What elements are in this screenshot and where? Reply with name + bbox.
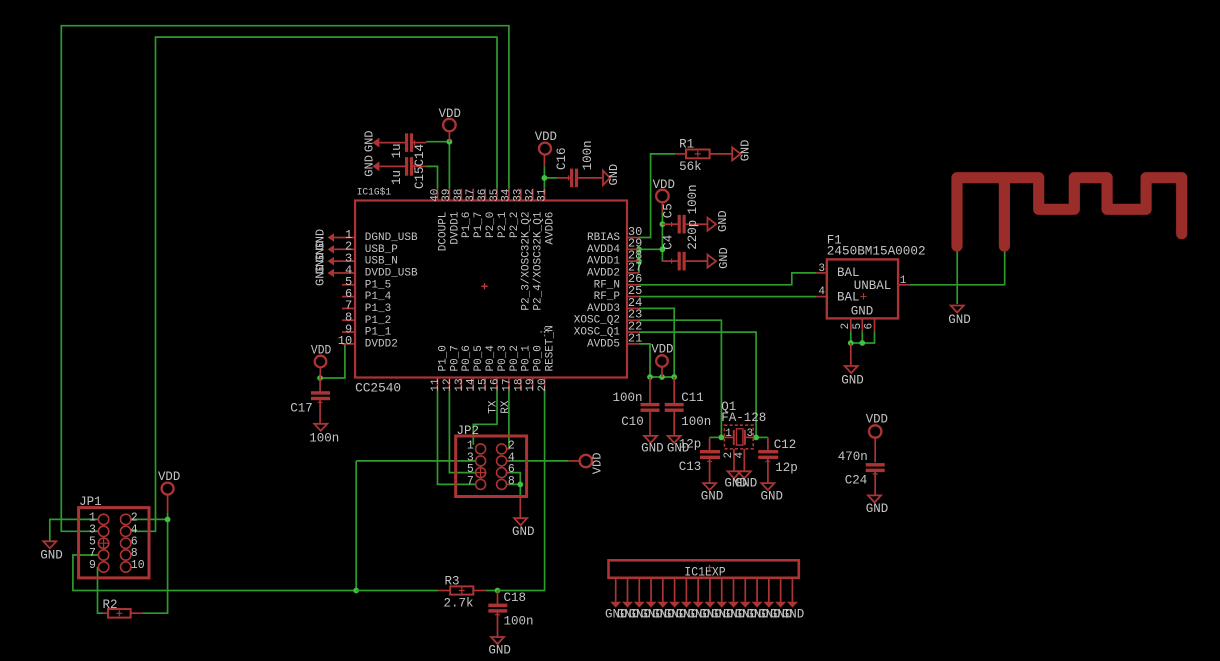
ground C14 (372, 138, 379, 148)
wire VDD to C14 and pin39 (426, 142, 449, 189)
svg-text:P2_0: P2_0 (485, 212, 497, 238)
junction C10 VDD (647, 374, 653, 380)
junction VDD stub (659, 374, 665, 380)
svg-text:17: 17 (501, 378, 513, 391)
svg-text:GND: GND (363, 155, 377, 177)
svg-text:AVDD3: AVDD3 (587, 303, 620, 315)
supply VDD JP2 pin4 (569, 460, 580, 462)
svg-text:GND: GND (739, 140, 753, 162)
svg-text:12p: 12p (775, 461, 798, 475)
capacitor C16 (557, 177, 570, 179)
svg-text:FA-128: FA-128 (721, 411, 766, 425)
wire R1 to pin30 RBIAS (639, 154, 675, 238)
connector IC1EXP (609, 560, 799, 578)
svg-text:14: 14 (466, 378, 478, 392)
svg-text:JP2: JP2 (457, 424, 480, 438)
ground C18 (491, 637, 504, 644)
IC1 pin 34 P2_2 (508, 189, 510, 201)
wire crystal pin1 to C13 (710, 436, 722, 438)
JP1 pin 9 (98, 562, 108, 572)
IC1EXP pin 7 to GND (685, 578, 687, 602)
svg-text:P2_3/XOSC32K_Q2: P2_3/XOSC32K_Q2 (521, 212, 533, 311)
capacitor C4 (678, 252, 681, 271)
JP2 pin 7 (476, 479, 486, 489)
ground JP1 pin1 (43, 541, 56, 548)
IC1 pin 35 P2_1 (496, 189, 498, 201)
junction R3/C18/RESET_N (495, 588, 501, 594)
svg-text:R1: R1 (679, 138, 694, 152)
svg-text:21: 21 (628, 331, 642, 345)
svg-text:C5: C5 (662, 203, 676, 218)
ground R1 (732, 147, 741, 160)
antenna E1 meander (957, 178, 1182, 246)
ground IC1 pin 2 (334, 248, 342, 250)
svg-text:GND: GND (717, 247, 731, 269)
IC1 pin 40 DCOUPL (437, 189, 439, 201)
wire R3 to C18/RESET junction (356, 590, 438, 592)
wire JP1 pin9 to R2 (98, 567, 104, 613)
junction R3 rail (353, 588, 359, 594)
wire JP1 pin1 to GND (50, 519, 99, 540)
IC1 pin 37 P1_7 (472, 189, 474, 201)
ground F1 (850, 343, 852, 365)
IC1 pin 6 P1_4 (342, 296, 355, 298)
Q1 pin4 lead to GND (743, 449, 745, 471)
capacitor C15 (380, 165, 405, 167)
wire JP1 pin7 to R3 rail (73, 555, 356, 591)
svg-text:3: 3 (747, 428, 754, 440)
svg-text:XOSC_Q2: XOSC_Q2 (574, 315, 620, 327)
svg-text:P0_4: P0_4 (485, 345, 497, 372)
IC1EXP pin 11 to GND (733, 578, 735, 602)
IC1 pin 25 RF_P (627, 296, 639, 298)
svg-text:C17: C17 (290, 402, 313, 416)
svg-text:C13: C13 (679, 460, 702, 474)
svg-text:19: 19 (525, 378, 537, 391)
svg-text:P0_0: P0_0 (533, 345, 545, 371)
op-amp U1 CC2540 IC body (355, 201, 627, 378)
F1 pin 6 (874, 318, 876, 331)
IC1EXP pin 14 to GND (768, 578, 770, 602)
svg-text:RBIAS: RBIAS (587, 232, 620, 244)
IC1 pin 36 P2_0 (484, 189, 486, 201)
svg-text:C10: C10 (621, 415, 644, 429)
junction F1 pin2 gnd (848, 340, 854, 346)
wire F1 UNBAL pin1 to antenna feed (910, 284, 1005, 286)
IC1 pin 38 P1_6 (460, 189, 462, 201)
junction JP1 pin2 VDD (165, 517, 171, 523)
svg-text:100n: 100n (309, 432, 339, 446)
svg-text:18: 18 (513, 378, 525, 391)
svg-text:31: 31 (536, 188, 548, 202)
IC1 pin 7 P1_3 (342, 307, 355, 309)
svg-text:IC1G$1: IC1G$1 (357, 187, 391, 199)
svg-text:AVDD2: AVDD2 (587, 267, 620, 279)
svg-text:P0_7: P0_7 (449, 345, 461, 371)
svg-text:40: 40 (429, 189, 441, 202)
svg-text:4: 4 (818, 286, 825, 298)
IC1 gate marker cross (540, 327, 549, 336)
junction JP2 pin8 gnd (517, 482, 523, 488)
svg-text:RX: RX (500, 400, 512, 414)
wire XOSC_Q1 pin22 to crystal pin3 (639, 332, 756, 437)
capacitor C24 (866, 463, 885, 466)
IC1EXP pin 3 to GND (638, 578, 640, 602)
svg-text:5: 5 (852, 323, 864, 330)
IC1 pin 2 USB_P (342, 248, 355, 250)
svg-text:GND: GND (735, 476, 758, 490)
svg-text:+: + (860, 291, 868, 305)
wire JP2 pin3 rail down to R3 (356, 460, 475, 462)
wire VDD/C5/C4 to pins 29-27 (661, 212, 663, 261)
JP1 pin 7 (98, 550, 108, 560)
JP2 pin 4 (497, 456, 507, 466)
IC1 pin 20 RESET_N (544, 378, 546, 391)
wire AVDD3 pin24 down to VDD row (639, 308, 674, 377)
svg-text:TX: TX (488, 400, 500, 414)
wire DVDD2 pin10 to VDD/C17 (320, 344, 345, 378)
IC1EXP pin 4 to GND (650, 578, 652, 602)
F1 pin 4 (816, 296, 826, 298)
svg-text:32: 32 (525, 189, 537, 202)
svg-text:R3: R3 (445, 575, 460, 589)
svg-text:GND: GND (701, 490, 724, 504)
junction C11 VDD (671, 374, 677, 380)
wire VDD row C10/C11 (650, 376, 674, 378)
IC1 pin 15 P0_4 (484, 378, 486, 391)
svg-text:VDD: VDD (866, 412, 888, 426)
ground C17 (314, 424, 327, 431)
svg-text:USB_N: USB_N (365, 256, 398, 268)
IC1 pin 28 AVDD1 (627, 260, 639, 262)
svg-text:DVDD2: DVDD2 (365, 338, 398, 350)
svg-text:4: 4 (734, 452, 746, 459)
wire JP2 pin4 to VDD (508, 460, 569, 462)
junction AVDD vertical (660, 246, 666, 252)
wire RX pin17 to JP2 pin2 (508, 390, 510, 449)
IC1 pin 5 P1_5 (342, 284, 355, 286)
IC1 pin 4 DVDD_USB (342, 272, 355, 274)
junction F1 pin5 gnd (859, 340, 865, 346)
svg-text:GND: GND (841, 374, 864, 388)
svg-text:11: 11 (430, 378, 442, 392)
svg-text:GND: GND (313, 264, 327, 286)
svg-text:GND: GND (363, 130, 377, 152)
svg-text:P2_4/XOSC32K_Q1: P2_4/XOSC32K_Q1 (533, 211, 545, 310)
ground IC1 pin 3 (334, 260, 342, 262)
svg-text:15: 15 (478, 378, 490, 391)
svg-text:35: 35 (489, 189, 501, 202)
svg-text:P0_5: P0_5 (473, 345, 485, 371)
svg-text:P0_6: P0_6 (461, 345, 473, 371)
svg-text:9: 9 (89, 559, 96, 572)
JP1 pin 2 (121, 514, 131, 524)
JP1 pin 5 (98, 538, 108, 548)
ground C13 (703, 483, 716, 490)
svg-text:P1_7: P1_7 (473, 212, 485, 238)
wire JP1 pin2 / VDD / R2 net (131, 519, 168, 613)
Q1 pin2 lead to GND (733, 449, 735, 471)
ground C12 (761, 483, 774, 490)
svg-text:GND: GND (607, 164, 621, 186)
transistor Q1 crystal FA-128 (724, 425, 753, 449)
IC1 pin 18 P0_1 (520, 378, 522, 391)
IC1 pin 22 XOSC_Q1 (627, 331, 639, 333)
IC1 pin 24 AVDD3 (627, 307, 639, 309)
svg-text:100n: 100n (681, 415, 711, 429)
JP1 pin 10 (121, 562, 131, 572)
svg-text:100n: 100n (686, 184, 700, 214)
svg-text:DVDD_USB: DVDD_USB (365, 268, 418, 280)
wire XOSC_Q2 pin23 to crystal pin1 (639, 320, 722, 437)
JP2 pin 2 (497, 444, 507, 454)
IC1 pin 14 P0_5 (472, 378, 474, 391)
IC1 pin 9 P1_1 (342, 331, 355, 333)
svg-text:36: 36 (477, 189, 489, 202)
wire AVDD5 pin21 down to VDD row (639, 344, 650, 377)
svg-text:16: 16 (490, 378, 502, 391)
junction VDD/C14/pin39 (447, 139, 453, 145)
ground IC1 pin 4 (334, 272, 342, 274)
svg-text:33: 33 (513, 189, 525, 202)
junction crystal pin3 (753, 435, 759, 441)
JP1 origin cross pin5 (98, 537, 110, 549)
capacitor C11 (673, 377, 675, 404)
svg-text:RF_P: RF_P (594, 291, 621, 303)
wire F1 ground pins (850, 331, 852, 343)
svg-text:1u: 1u (390, 170, 404, 185)
svg-text:2: 2 (840, 323, 852, 330)
svg-text:C12: C12 (774, 438, 797, 452)
svg-text:C24: C24 (845, 473, 868, 487)
IC1 pin 8 P1_2 (342, 319, 355, 321)
svg-text:39: 39 (441, 189, 453, 202)
IC1 pin 39 DVDD1 (448, 189, 450, 201)
svg-text:10: 10 (338, 334, 352, 348)
svg-text:RF_N: RF_N (594, 279, 620, 291)
svg-text:P0_1: P0_1 (521, 345, 533, 372)
svg-text:8: 8 (508, 475, 515, 488)
ground IC1 pin 1 (334, 237, 342, 239)
svg-text:C16: C16 (555, 147, 569, 170)
svg-text:P1_3: P1_3 (365, 303, 391, 315)
svg-text:JP1: JP1 (79, 495, 102, 509)
IC1 pin 29 AVDD4 (627, 248, 639, 250)
svg-text:C18: C18 (504, 591, 527, 605)
IC1 pin 26 RF_N (627, 284, 639, 286)
svg-text:GND: GND (716, 210, 730, 232)
F1 pin 5 (861, 318, 863, 331)
junction C5 lead (660, 221, 666, 227)
svg-text:GND: GND (761, 490, 784, 504)
ground JP2 pin8 (519, 497, 521, 518)
svg-text:P1_5: P1_5 (365, 279, 391, 291)
ground C15 (372, 161, 379, 171)
wire C15 to pin40 (426, 166, 437, 188)
svg-text:P1_6: P1_6 (461, 212, 473, 238)
capacitor C13 (709, 437, 711, 450)
svg-text:12: 12 (442, 378, 454, 391)
IC1 pin 12 P0_7 (448, 378, 450, 391)
svg-text:12p: 12p (679, 437, 702, 451)
IC1 pin 1 DGND_USB (342, 237, 355, 239)
svg-text:AVDD4: AVDD4 (587, 244, 620, 256)
resistor R2 (103, 612, 108, 614)
IC1EXP pin 10 to GND (721, 578, 723, 602)
svg-text:CC2540: CC2540 (355, 381, 401, 395)
capacitor C18 (497, 591, 499, 605)
IC1EXP pin 16 to GND (791, 578, 793, 602)
svg-text:20: 20 (537, 378, 549, 391)
svg-text:DCOUPL: DCOUPL (437, 212, 449, 252)
svg-text:VDD: VDD (591, 453, 605, 475)
wire VDD to C16 and pin31 (543, 166, 545, 189)
JP1 pin 8 (121, 550, 131, 560)
IC1EXP pin 13 to GND (756, 578, 758, 602)
IC1EXP pin 9 to GND (709, 578, 711, 602)
wire net P2_2 pin34 to JP1 pin3 (outer loop) (61, 26, 509, 532)
svg-text:GND: GND (512, 525, 535, 539)
IC1 pin 33 P2_3/XOSC32K_Q2 (520, 189, 522, 201)
capacitor C17 (319, 378, 321, 392)
svg-text:USB_P: USB_P (365, 244, 398, 256)
wire pin11 to JP2 pin7 (438, 390, 476, 484)
svg-text:2.7k: 2.7k (444, 597, 474, 611)
svg-text:37: 37 (465, 189, 477, 202)
svg-text:GND: GND (866, 502, 889, 516)
F1 pin 3 (816, 272, 826, 274)
svg-text:10: 10 (131, 559, 145, 572)
IC1EXP pin 6 to GND (674, 578, 676, 602)
svg-text:100n: 100n (613, 391, 643, 405)
IC1EXP pin 5 to GND (662, 578, 664, 602)
JP1 pin 1 (98, 514, 108, 524)
wire TX pin16 to JP2 pin1 (473, 390, 497, 445)
IC1EXP pin 1 to GND (615, 578, 617, 602)
wire crystal pin3 to C12 (756, 436, 768, 438)
wire antenna feed 1 to GND (956, 248, 958, 304)
IC1 pin 27 AVDD2 (627, 272, 639, 274)
svg-text:100n: 100n (504, 614, 534, 628)
IC1 pin 32 P2_4/XOSC32K_Q1 (532, 189, 534, 201)
svg-text:GND: GND (488, 644, 511, 658)
svg-text:6: 6 (864, 323, 876, 330)
IC1 pin 10 DVDD2 (342, 343, 355, 345)
svg-text:56k: 56k (679, 160, 702, 174)
IC1 pin 31 AVDD6 (544, 189, 546, 201)
JP1 pin 6 (121, 538, 131, 548)
junction crystal pin1 (719, 435, 725, 441)
capacitor C12 (767, 437, 769, 450)
IC1 pin 23 XOSC_Q2 (627, 319, 639, 321)
junction VDD/C17/pin10 (317, 375, 323, 381)
ground C10 (644, 436, 657, 443)
wire RESET_N pin20 down to C18 junction (498, 390, 545, 590)
svg-text:AVDD5: AVDD5 (587, 338, 620, 350)
IC1 pin 13 P0_6 (460, 378, 462, 391)
svg-text:P1_4: P1_4 (365, 291, 392, 303)
ground C4 (708, 255, 717, 268)
svg-text:2450BM15A0002: 2450BM15A0002 (827, 244, 926, 258)
svg-text:P2_1: P2_1 (497, 211, 509, 238)
svg-text:AVDD6: AVDD6 (545, 212, 557, 245)
svg-text:P0_2: P0_2 (509, 345, 521, 371)
svg-text:C4: C4 (662, 235, 676, 250)
ground C24 (868, 495, 881, 502)
JP2 pin 6 (497, 468, 507, 478)
wire antenna feed 2 (1004, 248, 1006, 284)
resistor R3 (438, 590, 450, 592)
svg-text:34: 34 (501, 188, 513, 202)
svg-text:GND: GND (948, 313, 971, 327)
svg-text:1: 1 (900, 275, 907, 287)
svg-text:13: 13 (454, 378, 466, 391)
IC1 pin 21 AVDD5 (627, 343, 639, 345)
IC1 pin 30 RBIAS (627, 237, 639, 239)
svg-text:DGND_USB: DGND_USB (365, 232, 418, 244)
svg-text:GND: GND (782, 608, 805, 622)
svg-text:38: 38 (453, 189, 465, 202)
wire JP2 pin6/pin8 to GND (508, 473, 520, 485)
F1 pin 1 (898, 284, 910, 286)
svg-text:R2: R2 (103, 598, 118, 612)
balun F1 2450BM15A0002 (827, 259, 898, 318)
svg-text:P0_3: P0_3 (497, 345, 509, 371)
svg-text:220p: 220p (686, 220, 700, 250)
svg-text:IC1EXP: IC1EXP (684, 565, 725, 579)
JP2 origin cross pin5 (475, 467, 487, 479)
svg-text:470n: 470n (838, 450, 868, 464)
ground antenna (951, 306, 964, 313)
IC1 origin cross (481, 283, 487, 289)
connector JP2 (456, 436, 527, 497)
svg-text:GND: GND (40, 548, 63, 562)
resistor R1 (675, 153, 686, 155)
svg-text:C15: C15 (413, 166, 427, 189)
IC1 pin 16 P0_3 (496, 378, 498, 391)
JP2 pin 3 (476, 456, 486, 466)
connector JP1 (79, 508, 149, 578)
junction pin28 stub (636, 258, 642, 264)
JP1 pin 3 (98, 526, 108, 536)
capacitor C14 (380, 142, 405, 144)
capacitor C5 (678, 215, 681, 234)
svg-text:1u: 1u (390, 143, 404, 158)
IC1 pin 11 P1_0 (437, 378, 439, 391)
svg-text:100n: 100n (581, 140, 595, 170)
junction VDD/C16/pin31 (542, 175, 548, 181)
wire RF_N pin26 to F1 pin3 (639, 273, 817, 285)
svg-text:P1_1: P1_1 (365, 327, 392, 339)
IC1EXP pin 8 to GND (697, 578, 699, 602)
svg-text:GND: GND (641, 442, 664, 456)
IC1 pin 17 P0_2 (508, 378, 510, 391)
wire net P2_1 pin35 to JP1 pin4 (inner loop) (131, 37, 497, 531)
svg-text:XOSC_Q1: XOSC_Q1 (574, 327, 621, 339)
IC1EXP pin 15 to GND (780, 578, 782, 602)
svg-text:P1_2: P1_2 (365, 315, 391, 327)
F1 pin 2 (850, 318, 852, 331)
JP1 pin 4 (121, 526, 131, 536)
ground C11 (668, 436, 681, 443)
svg-text:P2_2: P2_2 (509, 212, 521, 238)
svg-text:AVDD1: AVDD1 (587, 256, 620, 268)
svg-text:7: 7 (467, 475, 474, 488)
svg-text:3: 3 (818, 263, 825, 275)
svg-text:C11: C11 (681, 391, 704, 405)
svg-text:DVDD1: DVDD1 (449, 211, 461, 244)
svg-text:BAL: BAL (837, 291, 860, 305)
